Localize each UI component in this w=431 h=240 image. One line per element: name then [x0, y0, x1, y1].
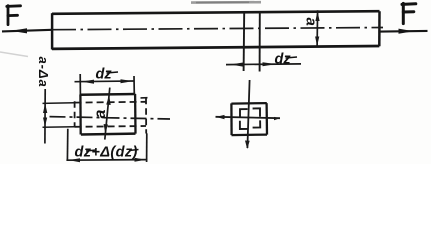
svg-text:dz: dz — [275, 52, 292, 68]
svg-text:dz: dz — [96, 67, 113, 83]
svg-text:dz+Δ(dz): dz+Δ(dz) — [75, 145, 138, 161]
svg-text:a-Δa: a-Δa — [36, 57, 51, 88]
element vertical centerline / a dimension — [104, 88, 111, 140]
dimension dz (element top) — [75, 74, 135, 95]
label F left — [7, 6, 21, 25]
section outer square — [231, 103, 267, 135]
label F right — [402, 3, 416, 23]
section inner dashed square (corner brackets) — [240, 108, 260, 129]
bar outline — [52, 11, 380, 49]
element dz boundary lines on bar — [244, 12, 260, 71]
element deformed dashed rectangle — [75, 98, 148, 134]
dimension a (bar height) — [315, 10, 320, 46]
dimension dz (on bar) — [226, 62, 301, 66]
dimension dz+delta(dz) (element bottom) — [66, 129, 147, 163]
element solid rectangle — [80, 94, 135, 135]
bar centerline — [52, 28, 383, 30]
element horizontal centerline — [50, 117, 171, 119]
scan smudge bottom-left — [0, 52, 28, 57]
force F right arrow — [379, 29, 427, 34]
scan smudge top — [191, 1, 261, 4]
section horizontal centerline — [216, 115, 281, 120]
dimension a-delta-a (far left) — [43, 89, 75, 144]
force F left arrow — [2, 28, 52, 33]
svg-text:a: a — [303, 18, 320, 26]
section vertical centerline — [245, 80, 250, 149]
svg-text:a: a — [92, 110, 109, 119]
